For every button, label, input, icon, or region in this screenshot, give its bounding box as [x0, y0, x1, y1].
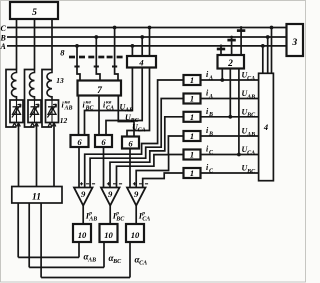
wire bypass loop branch 2	[25, 70, 35, 128]
wire summer 9-3 output	[135, 206, 137, 225]
svg-text:AB: AB	[246, 132, 255, 138]
svg-text:кв: кв	[86, 99, 92, 105]
wire valve 1 to block 11	[18, 125, 20, 187]
svg-text:1: 1	[190, 168, 194, 178]
block 1-6	[184, 168, 201, 178]
svg-text:BC: BC	[246, 113, 256, 119]
svg-text:10: 10	[78, 230, 87, 240]
svg-text:5: 5	[32, 8, 37, 18]
svg-text:A: A	[208, 75, 213, 81]
wire alpha_AB to block 11	[18, 203, 79, 257]
wire row 1 to block 4	[201, 79, 259, 81]
label i_C row 6	[206, 163, 214, 174]
svg-text:C: C	[1, 24, 7, 33]
op-amp summer 9-2	[101, 188, 120, 206]
wire valve 3 to block 11	[53, 125, 55, 187]
svg-text:A: A	[208, 94, 213, 100]
svg-text:кв: кв	[106, 99, 112, 105]
wire bus B to block 4	[266, 35, 270, 73]
block 6-3	[122, 137, 139, 149]
svg-text:CA: CA	[247, 150, 255, 156]
wire block 1-6 to summer input	[143, 173, 184, 188]
svg-text:1: 1	[190, 150, 194, 160]
block 4 (voltage transformer)	[127, 56, 156, 68]
svg-text:4: 4	[263, 122, 268, 132]
wire summer 9-2 output	[109, 206, 111, 225]
wire block 6-1 to summer 9-1	[78, 147, 80, 188]
wire bus C to block 4vt	[148, 26, 152, 56]
label i_kv_AB	[62, 99, 73, 111]
label 13	[56, 76, 64, 85]
label U_AB mid	[120, 103, 134, 114]
thyristor valve 12 branch 3	[46, 100, 59, 123]
svg-text:BC: BC	[112, 259, 122, 265]
op-amp summer 9-3	[127, 188, 146, 206]
svg-text:2: 2	[227, 59, 233, 69]
svg-text:З: З	[291, 38, 297, 48]
current transformer 2 of group 8	[88, 35, 104, 80]
block 1-2	[184, 94, 201, 104]
wire i_kv_BC output	[98, 96, 100, 136]
label U_AB row 2	[242, 89, 256, 100]
wire alpha_BC to block 11	[29, 203, 104, 267]
wire bus A to block 4	[261, 44, 265, 73]
label I_p_BC	[112, 210, 126, 222]
svg-text:1: 1	[190, 94, 194, 104]
label alpha_CA	[135, 255, 148, 267]
signs summer 9-3	[133, 182, 148, 185]
block 10-2	[100, 224, 118, 242]
wire i_kv_CA output	[118, 96, 134, 137]
label U_CA row 1	[242, 71, 256, 82]
block 5 (supply system)	[10, 2, 58, 19]
label A	[0, 42, 7, 51]
svg-text:CA: CA	[142, 217, 150, 223]
wire block 10-1 alpha output	[78, 242, 80, 257]
label U_BC mid	[125, 113, 140, 124]
svg-text:B: B	[0, 33, 7, 42]
bus B	[7, 36, 287, 38]
block 6-2	[95, 135, 112, 147]
svg-text:10: 10	[104, 230, 113, 240]
svg-text:B: B	[208, 131, 213, 137]
svg-text:1: 1	[190, 131, 194, 141]
label i_B row 4	[206, 126, 213, 137]
label i_kv_CA	[103, 99, 114, 111]
wire U_BC to block 6-2	[106, 68, 142, 136]
label i_B row 3	[206, 107, 213, 118]
svg-text:р: р	[88, 210, 92, 216]
reactor 13 coil branch 1	[11, 70, 16, 101]
wire row 6 to block 4	[201, 172, 259, 174]
wire block 6-2 to summer 9-2	[103, 147, 105, 188]
wire feeder 2 from block 5	[34, 19, 36, 70]
label U_BC row 3	[242, 107, 257, 118]
wire block 2 to row 1	[220, 69, 224, 82]
svg-text:AB: AB	[64, 106, 73, 112]
bus A	[7, 45, 287, 47]
label U_AB row 4	[242, 127, 256, 138]
wire block 1-2 to summer input	[90, 99, 183, 188]
wire feeder 1 from block 5	[16, 19, 18, 70]
label U_BC row 6	[242, 164, 257, 175]
svg-text:4: 4	[138, 57, 143, 67]
wire bypass loop branch 1	[6, 70, 17, 128]
svg-text:р: р	[141, 210, 145, 216]
wire block 1-3 to summer input	[110, 117, 184, 188]
voltage tap 1 for block 2	[217, 45, 225, 56]
wire row 2 to block 4	[201, 98, 259, 100]
wire row 3 to block 4	[201, 116, 259, 118]
svg-text:8: 8	[60, 48, 65, 58]
svg-text:A: A	[0, 42, 7, 51]
wire block 10-3 alpha output	[129, 242, 131, 278]
wire block 6-3 to summer 9-3	[129, 149, 131, 188]
label I_p_CA	[138, 210, 151, 222]
svg-text:10: 10	[131, 230, 140, 240]
svg-text:AB: AB	[246, 94, 255, 100]
wire block 1-4 to summer input	[117, 136, 184, 188]
block 10-3	[126, 224, 144, 242]
wire bus C to block 4	[270, 26, 274, 74]
label alpha_BC	[109, 253, 123, 265]
wire block 2 to row 3	[228, 69, 232, 119]
label B	[0, 33, 7, 42]
wire bus A to block 4vt	[131, 44, 135, 56]
wire block 1-1 to summer input	[85, 80, 184, 188]
svg-text:B: B	[208, 112, 213, 118]
label 12	[60, 116, 68, 125]
current transformer 3 of group 8	[107, 26, 123, 81]
svg-text:13: 13	[56, 76, 64, 85]
gate arrows branch 1	[13, 123, 21, 127]
gate arrows branch 2	[31, 123, 39, 127]
svg-text:BC: BC	[115, 217, 125, 223]
block 1-5	[184, 150, 201, 160]
current transformer 1 of group 8	[69, 44, 85, 81]
wire block 1-5 to summer input	[136, 155, 183, 188]
gate arrows branch 3	[48, 123, 56, 127]
svg-text:CA: CA	[247, 76, 255, 82]
signs summer 9-2	[107, 182, 122, 185]
wire feeder 3 from block 5	[51, 19, 53, 70]
wire valve 2 to block 11	[36, 125, 38, 187]
svg-text:1: 1	[190, 112, 194, 122]
block 10-1	[73, 224, 91, 242]
wire summer 9-1 output	[82, 206, 84, 225]
wire block 10-2 alpha output	[103, 242, 105, 267]
thyristor valve 12 branch 2	[28, 100, 41, 123]
label C	[1, 24, 7, 33]
wire U_CA to block 6-3	[127, 68, 150, 137]
label alpha_AB	[84, 252, 97, 264]
block 4 (voltage sensors)	[259, 73, 274, 180]
svg-text:12: 12	[60, 116, 68, 125]
svg-text:AB: AB	[88, 217, 97, 223]
label i_A row 2	[206, 89, 213, 100]
svg-text:AB: AB	[87, 258, 96, 264]
label U_CA mid	[132, 123, 146, 134]
wire alpha_CA to block 11	[41, 203, 130, 278]
svg-text:кв: кв	[65, 99, 71, 105]
wire row 4 to block 4	[201, 135, 259, 137]
label i_kv_BC	[83, 99, 95, 111]
wire U_AB to block 6-1	[85, 68, 133, 136]
bus C	[7, 27, 287, 29]
block 7 (thyristor-current sensors)	[78, 81, 122, 97]
block 1-1	[184, 75, 201, 85]
voltage tap 2 for block 2	[227, 36, 235, 55]
svg-text:BC: BC	[246, 169, 256, 175]
signs summer 9-1	[80, 182, 95, 185]
svg-text:11: 11	[32, 193, 41, 203]
wire block 2 to row 5	[237, 69, 241, 157]
label 8	[60, 48, 65, 58]
svg-text:9: 9	[108, 189, 113, 199]
wire i_kv_AB output	[78, 96, 80, 136]
svg-text:CA: CA	[138, 128, 146, 134]
svg-text:р: р	[115, 210, 119, 216]
svg-text:9: 9	[134, 189, 139, 199]
block 6-1	[71, 135, 89, 147]
thyristor valve 12 branch 1	[10, 100, 23, 123]
svg-text:CA: CA	[139, 261, 147, 267]
svg-text:1: 1	[190, 75, 194, 85]
label U_CA row 5	[242, 145, 256, 156]
reactor 13 coil branch 3	[47, 70, 52, 101]
block 3 (load)	[287, 24, 304, 56]
wire row 5 to block 4	[201, 154, 259, 156]
block 2 (synchronizer)	[218, 55, 245, 69]
block 11 (pulse-phase control)	[12, 187, 62, 204]
voltage tap 3 for block 2	[237, 26, 245, 55]
svg-text:9: 9	[81, 189, 86, 199]
wire bypass loop branch 3	[42, 70, 52, 128]
label I_p_AB	[85, 210, 98, 222]
block 1-4	[184, 131, 201, 141]
label i_A row 1	[206, 70, 213, 81]
reactor 13 coil branch 2	[29, 70, 34, 101]
block 1-3	[184, 112, 201, 122]
wire bus B to block 4vt	[140, 35, 144, 56]
op-amp summer 9-1	[74, 188, 93, 206]
label i_C row 5	[206, 145, 214, 156]
